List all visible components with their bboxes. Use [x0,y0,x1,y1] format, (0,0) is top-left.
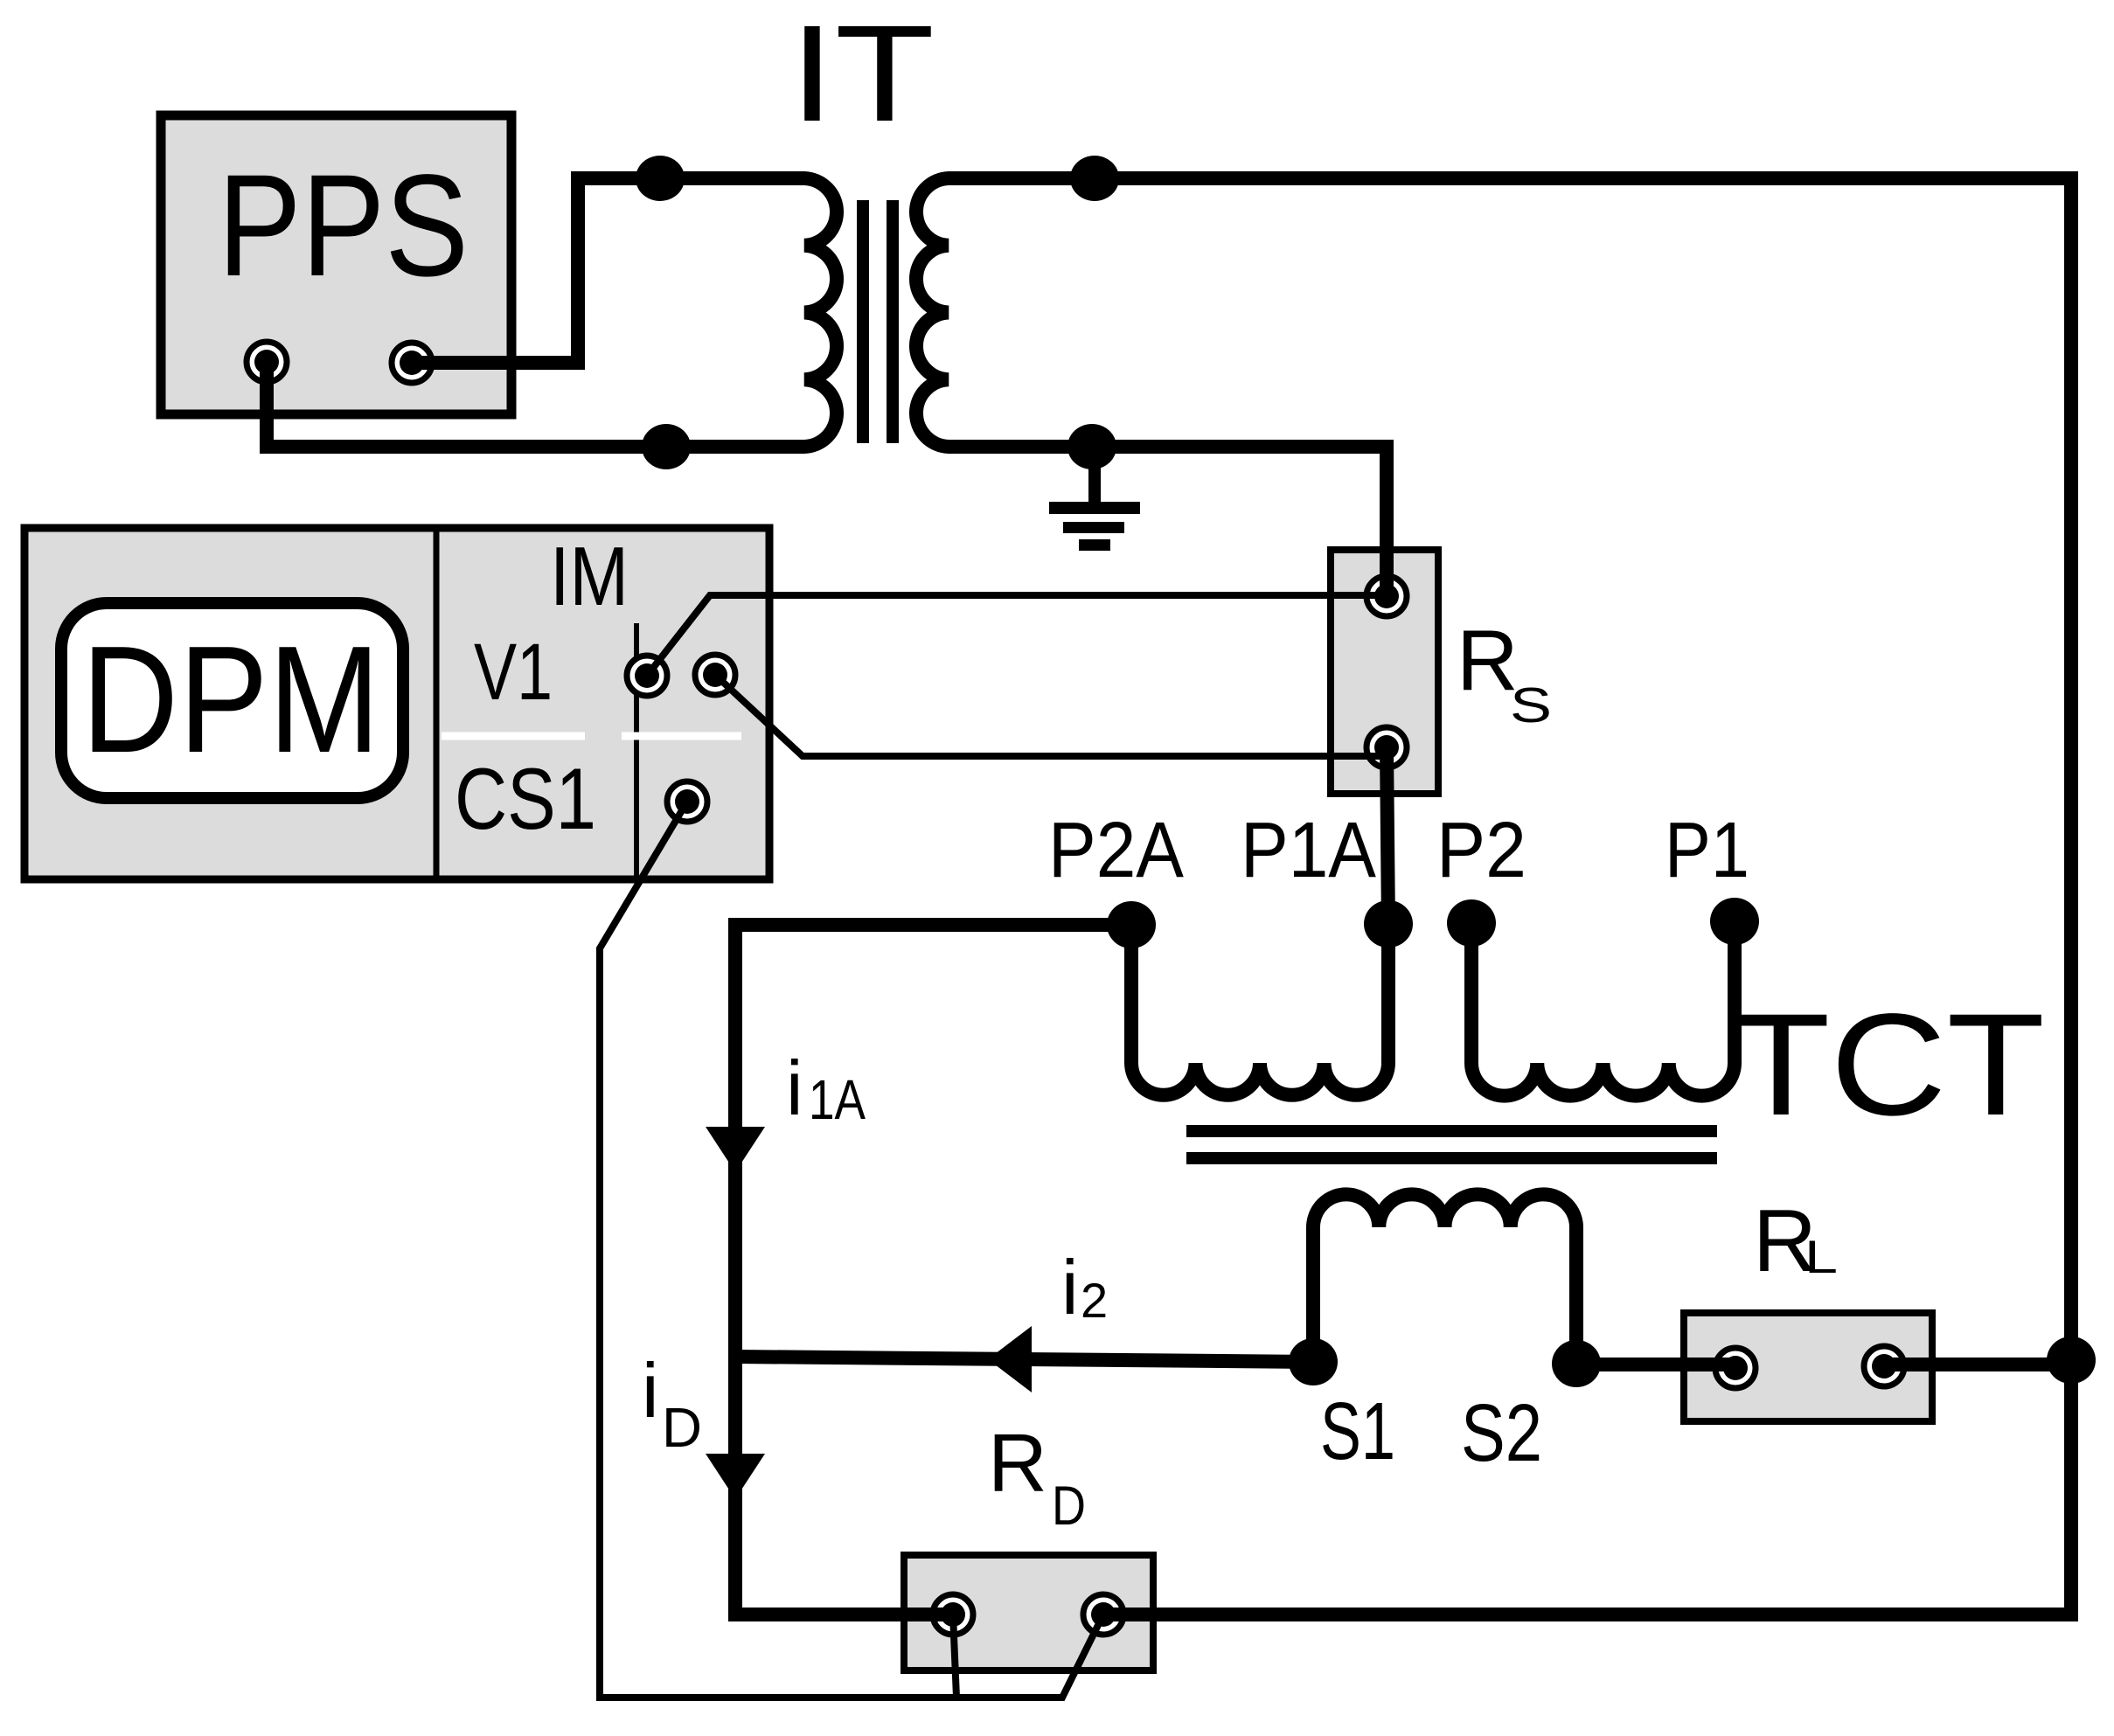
svg-text:IM: IM [550,530,629,623]
terminal RD left [933,1594,973,1635]
box RD [904,1555,1153,1670]
svg-text:i: i [1061,1244,1079,1330]
svg-text:IT: IT [789,0,935,150]
box PPS [161,115,511,414]
DPM divider line 2 [634,623,639,876]
wire IT secondary top lead along right bus to RD right terminal [949,178,2071,1614]
node P1 dot [1710,898,1759,945]
terminal RS bottom [1366,727,1407,767]
svg-text:i: i [786,1045,803,1131]
transformer TCT core bar top [1186,1125,1717,1137]
ground bar 1 [1049,502,1140,514]
wire sense V1 right to RS bottom (thin) [715,675,1387,756]
transformer TCT secondary winding [1313,1194,1576,1364]
DPM white separator left [442,733,585,740]
node P2A dot [1107,901,1156,948]
svg-text:R: R [988,1417,1047,1509]
wire S2 to RL left terminal [1576,1358,1735,1371]
arrow iD [706,1454,765,1499]
svg-text:1A: 1A [809,1068,866,1131]
svg-text:V1: V1 [474,628,553,717]
transformer TCT core bar bottom [1186,1152,1717,1164]
terminal PPS right [392,343,432,383]
box DPM [24,528,769,879]
svg-text:2: 2 [1081,1273,1108,1328]
transformer IT core bar right [887,200,899,443]
wire P2A to left vertical down to RD left terminal [735,925,1131,1614]
terminal DPM V1 right [695,655,735,695]
node junction dot on IT primary bottom [642,424,691,469]
arrow i1A [706,1127,765,1172]
node bus junction dot [2047,1337,2096,1384]
wire sense V1 left to RS top (thin) [647,595,1387,676]
transformer IT core bar left [857,200,869,443]
svg-text:P1: P1 [1665,807,1749,894]
svg-text:P2A: P2A [1048,807,1184,894]
svg-text:D: D [662,1396,702,1459]
svg-text:PPS: PPS [218,145,469,307]
svg-text:D: D [1052,1476,1086,1537]
node junction dot on IT secondary bottom [1067,424,1116,469]
terminal RL right [1864,1346,1904,1386]
box RS [1331,550,1438,794]
ground stub [1088,447,1101,503]
node S2 dot [1552,1340,1601,1387]
transformer TCT left primary winding [1131,924,1388,1095]
DPM display bezel [61,603,403,798]
transformer IT secondary winding [916,178,949,447]
terminal DPM V1 left [627,656,667,696]
DPM white separator right [622,733,741,740]
node P1A dot [1364,900,1413,948]
wire IT secondary bottom lead to RS top terminal [949,447,1387,596]
box RL [1684,1313,1932,1421]
svg-text:P1A: P1A [1241,807,1376,894]
svg-text:S1: S1 [1320,1385,1395,1476]
svg-text:S2: S2 [1461,1387,1542,1478]
svg-text:S: S [1510,677,1552,733]
wire RL right terminal to bus [1884,1358,2071,1371]
ground bar 3 [1079,539,1110,551]
wire sense CS1 to RD right terminal (thin) [600,802,1103,1698]
ground bar 2 [1063,522,1124,533]
terminal DPM CS1 [667,781,707,822]
terminal RS top [1366,576,1407,616]
node P2 dot [1447,899,1496,947]
wire PPS right terminal to IT primary top lead [412,178,804,363]
wire sense RD left terminal drop (thin) [953,1614,956,1698]
svg-text:CS1: CS1 [455,750,596,847]
svg-text:TCT: TCT [1732,984,2045,1146]
terminal RL left [1715,1348,1756,1388]
node junction dot on IT secondary top [1070,156,1119,201]
terminal RD right [1083,1594,1123,1635]
DPM divider line 1 [434,528,440,879]
transformer IT primary winding [804,178,837,447]
svg-text:DPM: DPM [81,614,380,784]
svg-text:P2: P2 [1436,807,1526,894]
svg-text:L: L [1805,1232,1838,1283]
transformer TCT right primary winding [1471,921,1735,1096]
wire i2 from S1 to left vertical [735,1357,1313,1362]
node junction dot on IT primary top [636,156,685,201]
terminal PPS left [247,342,287,382]
node S1 dot [1289,1338,1338,1385]
svg-text:i: i [642,1347,659,1434]
wire RS bottom terminal to P1A [1387,747,1388,924]
wire PPS left terminal to IT primary bottom lead [267,362,804,447]
arrow i2 [988,1326,1032,1392]
